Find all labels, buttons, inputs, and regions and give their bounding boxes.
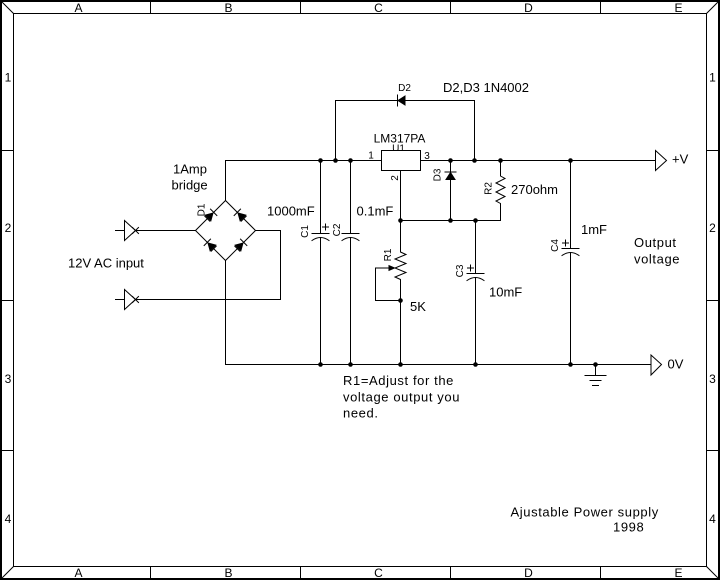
frame row numbers right: [709, 71, 716, 527]
junction dots: [318, 158, 598, 367]
label 1Amp bridge: [172, 162, 208, 193]
svg-text:270ohm: 270ohm: [511, 182, 558, 197]
svg-text:12V AC input: 12V AC input: [68, 256, 144, 271]
wire D2 bypass branch: [336, 101, 475, 161]
svg-text:C4: C4: [550, 239, 561, 252]
svg-text:R2: R2: [484, 182, 495, 195]
svg-text:B: B: [224, 566, 232, 580]
svg-text:A: A: [74, 1, 82, 15]
svg-text:D: D: [524, 566, 533, 580]
border frame row dividers right: [707, 151, 718, 451]
svg-text:1Amp: 1Amp: [173, 162, 207, 177]
wire 0V bottom rail: [226, 364, 652, 366]
wire U1 pin3 to +V connector: [421, 160, 656, 162]
border frame column dividers bottom: [151, 567, 601, 578]
svg-text:C: C: [374, 1, 383, 15]
capacitor C1 (1000mF): [312, 161, 329, 365]
input connector J1 (AC line 1): [116, 221, 139, 241]
svg-text:4: 4: [709, 512, 716, 526]
border frame column dividers top: [151, 3, 601, 14]
svg-text:1: 1: [709, 71, 716, 85]
output connector 0V: [651, 355, 662, 375]
diode D3: [445, 172, 456, 180]
bridge diode D1a (left-to-top): [204, 209, 217, 222]
svg-text:D3: D3: [433, 168, 444, 181]
svg-text:A: A: [74, 566, 82, 580]
svg-text:need.: need.: [343, 406, 379, 421]
svg-text:E: E: [674, 1, 682, 15]
wire J2 to bridge right node: [136, 231, 281, 300]
border frame row dividers left: [3, 151, 14, 451]
svg-text:10mF: 10mF: [489, 285, 522, 300]
svg-text:2: 2: [709, 221, 716, 235]
svg-text:D2: D2: [398, 83, 411, 94]
wire U1 pin2 down to adjust rail: [400, 171, 402, 221]
svg-text:voltage: voltage: [634, 252, 680, 267]
resistor R2 (270ohm): [496, 161, 505, 221]
R1 wiper arm: [376, 266, 401, 301]
ground: [585, 365, 606, 386]
svg-text:C2: C2: [332, 223, 343, 236]
svg-text:LM317PA: LM317PA: [374, 132, 426, 146]
svg-text:voltage output you: voltage output you: [343, 390, 460, 405]
svg-text:E: E: [674, 566, 682, 580]
title Ajustable Power supply 1998: [511, 505, 659, 535]
svg-text:Ajustable Power supply: Ajustable Power supply: [511, 505, 659, 520]
svg-text:1: 1: [5, 71, 12, 85]
wire bridge top to +V rail: [226, 161, 382, 201]
bridge rectifier D1 diamond: [196, 201, 256, 261]
bridge diode D1d (bottom-to-right): [234, 239, 247, 252]
svg-text:2: 2: [390, 175, 401, 181]
capacitor C4 (1mF): [562, 161, 579, 365]
bridge diode D1b (right-to-top): [234, 209, 247, 222]
svg-text:D: D: [524, 1, 533, 15]
svg-text:C3: C3: [455, 264, 466, 277]
frame column letters top: [74, 1, 682, 15]
svg-text:5K: 5K: [410, 299, 426, 314]
note R1 adjust: [343, 373, 460, 421]
svg-text:0V: 0V: [668, 357, 684, 372]
svg-text:R1: R1: [383, 248, 394, 261]
svg-text:+V: +V: [672, 152, 689, 167]
svg-text:C: C: [374, 566, 383, 580]
frame column letters bottom: [74, 566, 682, 580]
svg-text:0.1mF: 0.1mF: [357, 204, 394, 219]
svg-text:D1: D1: [197, 203, 208, 216]
capacitor C3 (10mF): [467, 221, 484, 365]
svg-text:D2,D3 1N4002: D2,D3 1N4002: [443, 80, 529, 95]
capacitor C2 (0.1mF): [342, 161, 359, 365]
svg-text:C1: C1: [300, 225, 311, 238]
svg-text:1: 1: [368, 151, 374, 162]
svg-text:R1=Adjust for the: R1=Adjust for the: [343, 373, 454, 388]
wire D3 branch: [450, 161, 452, 221]
svg-text:4: 4: [5, 512, 12, 526]
input connector J2 (AC line 2): [116, 290, 139, 310]
wire J1 to bridge left node: [136, 230, 196, 232]
op-amp U1 LM317 body: [382, 151, 421, 171]
svg-text:3: 3: [5, 372, 12, 386]
svg-text:3: 3: [709, 372, 716, 386]
potentiometer R1 (5K): [395, 221, 406, 365]
output connector +V: [656, 151, 667, 171]
svg-text:2: 2: [5, 221, 12, 235]
svg-text:1mF: 1mF: [581, 222, 607, 237]
svg-text:B: B: [224, 1, 232, 15]
svg-text:1000mF: 1000mF: [267, 204, 315, 219]
label Output voltage: [634, 235, 680, 267]
bridge diode D1c (bottom-to-left): [204, 239, 217, 252]
diode D2: [398, 95, 406, 106]
svg-text:Output: Output: [634, 235, 677, 250]
svg-text:1998: 1998: [613, 520, 644, 535]
frame row numbers left: [5, 71, 12, 527]
svg-text:bridge: bridge: [172, 178, 208, 193]
wire bridge bottom to 0V rail: [225, 261, 227, 365]
wire adjust rail: [401, 220, 501, 222]
